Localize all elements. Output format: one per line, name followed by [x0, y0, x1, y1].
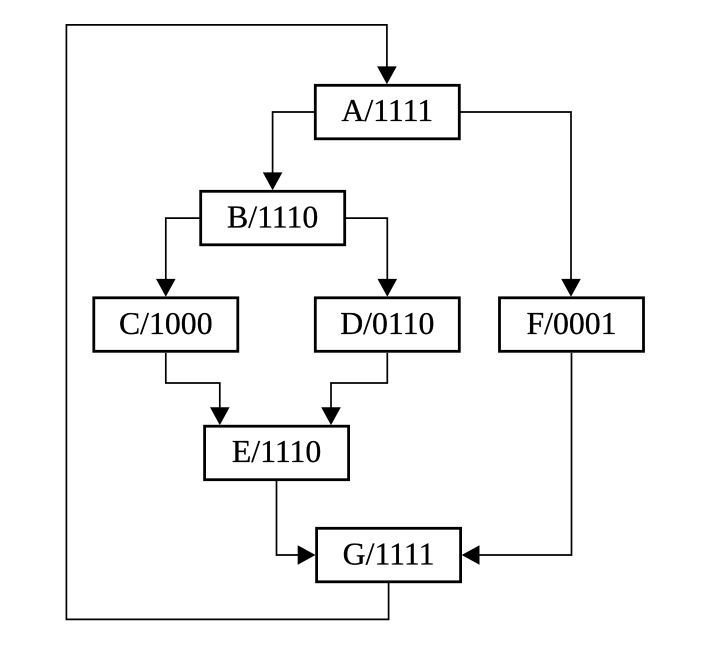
arrowhead into node G left [298, 545, 316, 565]
arrowhead into node E top right [321, 407, 341, 425]
arrowhead into node F top [561, 279, 581, 297]
svg-text:G/1111: G/1111 [343, 537, 435, 572]
arrowhead into node A top [377, 66, 397, 84]
arrowhead into node E top left [210, 407, 230, 425]
svg-text:D/0110: D/0110 [340, 306, 434, 341]
wire feedback loop G bottom to A top (down, left, up left side, right along top, down) [66, 25, 388, 620]
svg-text:F/0001: F/0001 [526, 306, 616, 341]
node A/1111 [315, 85, 459, 139]
wire B to D [345, 218, 388, 280]
wire A to B [273, 112, 316, 174]
wire B to C [166, 218, 201, 280]
wire C to E [166, 353, 220, 409]
node F/0001 [500, 298, 644, 352]
arrowhead into node B top [263, 172, 283, 190]
svg-text:B/1110: B/1110 [227, 200, 318, 235]
node E/1110 [205, 426, 349, 480]
arrowhead into node G right [462, 545, 480, 565]
wire E to G [277, 480, 300, 555]
arrowhead into node C top [156, 279, 176, 297]
svg-text:A/1111: A/1111 [341, 93, 433, 128]
node G/1111 [317, 528, 461, 582]
node D/0110 [315, 298, 459, 352]
svg-text:C/1000: C/1000 [119, 306, 213, 341]
wire D to E [331, 353, 387, 409]
wire A to F [459, 112, 571, 281]
node B/1110 [201, 191, 345, 245]
node C/1000 [94, 298, 238, 352]
svg-text:E/1110: E/1110 [232, 434, 322, 469]
wire F to G [479, 353, 572, 555]
arrowhead into node D top [378, 279, 398, 297]
